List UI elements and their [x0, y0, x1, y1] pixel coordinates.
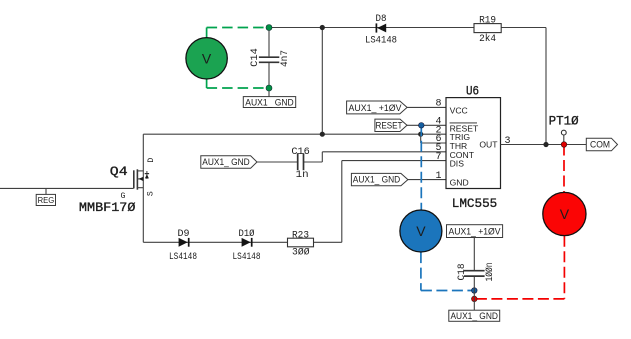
svg-text:V: V	[560, 206, 570, 222]
pin number 3	[505, 136, 511, 147]
svg-text:VCC: VCC	[450, 105, 468, 115]
power port AUX1_GND to C16	[201, 156, 257, 168]
power port AUX1_GND to pin 1	[351, 173, 408, 185]
svg-text:GND: GND	[450, 178, 469, 188]
pin number 8	[435, 99, 441, 110]
svg-text:AUX1_ +1ØV: AUX1_ +1ØV	[349, 102, 403, 113]
svg-text:DIS: DIS	[450, 159, 465, 169]
wire Q4 drain-source vertical	[142, 134, 144, 242]
svg-text:R19: R19	[479, 16, 496, 27]
svg-text:D1Ø: D1Ø	[239, 228, 255, 240]
svg-text:AUX1_ GND: AUX1_ GND	[202, 156, 250, 167]
svg-text:3: 3	[505, 136, 511, 147]
net label AUX1_GND bottom	[449, 310, 500, 321]
node green bottom	[266, 85, 272, 91]
svg-text:OUT: OUT	[479, 140, 498, 150]
svg-text:LS4148: LS4148	[169, 252, 197, 263]
resistor R19 2k4	[474, 16, 501, 45]
wire VCC pin 8	[407, 106, 446, 108]
pin number 6	[435, 134, 441, 145]
svg-text:U6: U6	[466, 85, 479, 99]
node red at OUT	[561, 142, 567, 148]
svg-text:LS4148: LS4148	[365, 36, 397, 47]
svg-text:S: S	[146, 191, 155, 196]
svg-text:3ØØ: 3ØØ	[292, 247, 310, 259]
net label AUX1_+10V at C18	[447, 225, 503, 238]
svg-text:2k4: 2k4	[479, 33, 496, 45]
label LMC555	[452, 196, 498, 211]
diode D10 LS4148	[233, 228, 261, 263]
diode D9 LS4148	[169, 229, 197, 263]
pin number 5	[435, 143, 441, 154]
svg-text:V: V	[202, 51, 212, 67]
wire TRIG net (Q4 drain to pin 2)	[143, 133, 446, 135]
svg-text:1ØØn: 1ØØn	[484, 263, 496, 282]
wire vertical R19 to OUT	[545, 28, 547, 145]
pin number 4	[435, 117, 441, 128]
svg-text:V: V	[416, 223, 426, 239]
svg-text:1n: 1n	[296, 170, 309, 181]
svg-text:AUX1_ GND: AUX1_ GND	[245, 96, 294, 107]
power port AUX1_+10V to VCC	[347, 101, 408, 114]
node green top	[266, 25, 272, 31]
pin label D of Q4	[147, 158, 156, 163]
svg-text:PT1Ø: PT1Ø	[549, 114, 579, 129]
svg-text:1: 1	[435, 171, 441, 182]
node red at C18	[472, 296, 478, 302]
pin number 7	[435, 152, 441, 163]
label MMBF170	[79, 200, 136, 215]
label Q4	[110, 164, 128, 179]
transistor Q4 MMBF170	[134, 169, 149, 189]
net label REG	[36, 194, 55, 205]
voltmeter probe blue	[400, 125, 472, 290]
junction OUT / R19 vertical	[543, 142, 548, 147]
wire THR tie to TRIG	[421, 134, 446, 143]
wire RESET pin 4	[407, 124, 446, 126]
resistor R23 300	[288, 230, 314, 258]
pin number 2	[435, 125, 441, 136]
wire REG stub	[45, 188, 47, 194]
svg-text:D9: D9	[178, 229, 190, 240]
wire gate net from left edge to Q4 gate	[0, 187, 134, 189]
voltmeter probe red	[477, 145, 586, 299]
capacitor C18 100n	[457, 263, 496, 282]
net label AUX1_GND under C14	[243, 96, 295, 107]
wire DIS net down to R23	[342, 161, 446, 243]
svg-text:D: D	[147, 158, 156, 163]
wire CONT net with step	[257, 152, 446, 162]
net flag RESET	[375, 119, 407, 131]
pin number 1	[435, 171, 441, 182]
wire vertical top rail to TRIG	[321, 28, 323, 135]
capacitor C16 1n	[291, 147, 310, 181]
capacitor C14 4n7	[250, 28, 291, 89]
wire OUT net to COM	[501, 144, 587, 146]
svg-text:D8: D8	[376, 14, 387, 25]
svg-text:R23: R23	[292, 230, 309, 241]
svg-text:AUX1_ +1ØV: AUX1_ +1ØV	[449, 226, 502, 237]
net flag COM	[586, 138, 617, 151]
voltmeter probe green	[186, 28, 266, 89]
svg-text:REG: REG	[38, 195, 55, 205]
junction TRIG / top vertical	[320, 132, 325, 137]
svg-text:AUX1_ GND: AUX1_ GND	[450, 310, 498, 321]
test point PT10	[549, 114, 579, 145]
svg-text:C16: C16	[291, 147, 310, 158]
wire C18 net vertical	[473, 238, 475, 311]
wire top rail	[269, 27, 546, 29]
svg-text:4n7: 4n7	[280, 50, 291, 67]
wire bottom rail	[143, 241, 341, 243]
svg-text:MMBF17Ø: MMBF17Ø	[79, 200, 136, 215]
svg-text:AUX1_ GND: AUX1_ GND	[353, 174, 401, 185]
junction top rail / TRIG vertical	[320, 25, 325, 30]
node blue at C18	[472, 288, 478, 294]
svg-text:C14: C14	[250, 48, 261, 67]
svg-text:Q4: Q4	[110, 164, 128, 179]
svg-text:LMC555: LMC555	[452, 196, 498, 211]
pin label S of Q4	[146, 191, 155, 196]
node blue at RESET	[419, 123, 425, 129]
wire C14 to gnd label stub	[268, 88, 270, 97]
junction TRIG / THR tie	[418, 132, 423, 137]
svg-text:7: 7	[435, 152, 441, 163]
label U6	[466, 85, 479, 99]
svg-text:LS4148: LS4148	[233, 252, 261, 263]
wire GND pin 1	[408, 179, 446, 181]
svg-text:COM: COM	[590, 140, 610, 150]
pin label G of Q4	[121, 192, 126, 201]
svg-text:8: 8	[435, 99, 441, 110]
diode D8 LS4148	[365, 14, 397, 47]
timer IC U6 LMC555	[446, 98, 501, 189]
svg-text:RESET: RESET	[376, 119, 403, 130]
svg-text:C18: C18	[457, 264, 468, 281]
